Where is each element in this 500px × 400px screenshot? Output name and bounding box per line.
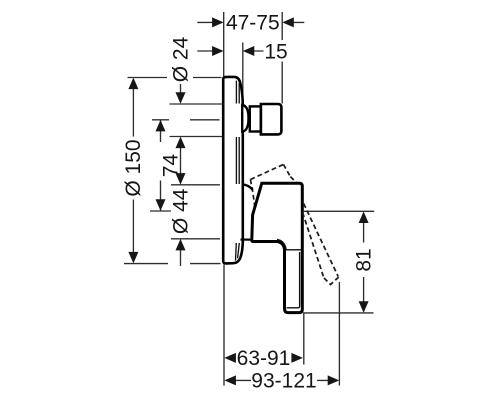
spout end cap xyxy=(261,104,282,134)
dim 47-75 tails xyxy=(197,21,304,23)
extension line dashed lever tip xyxy=(338,282,340,386)
arrow 63-91 right xyxy=(291,353,303,363)
sleeve top curve xyxy=(243,184,253,190)
spout rosette xyxy=(242,105,248,132)
arrow 15 left xyxy=(212,46,224,56)
ref lines O24 xyxy=(170,104,223,137)
svg-text:74: 74 xyxy=(159,154,182,178)
extension line wall plane bottom xyxy=(223,265,225,386)
lever inner edge lines xyxy=(287,252,300,308)
shaft O24-O44 column xyxy=(180,84,182,266)
arrow O150 down xyxy=(128,252,138,264)
svg-text:Ø 24: Ø 24 xyxy=(169,36,192,82)
lever parting line xyxy=(285,249,302,251)
fillet inner curve xyxy=(277,239,286,249)
dim O150 shaft xyxy=(132,88,134,253)
valve body and lever silhouette xyxy=(252,183,303,312)
dashed lever up position xyxy=(250,164,296,210)
svg-text:81: 81 xyxy=(352,248,375,271)
arrow 15 right xyxy=(243,46,255,56)
dim 74 shaft xyxy=(160,120,162,211)
dashed lever swung out xyxy=(303,204,339,285)
dim 81 shaft xyxy=(363,213,365,312)
extension line lever front xyxy=(303,314,305,365)
arrow O150 up xyxy=(128,78,138,90)
arrow O44 down xyxy=(176,173,186,185)
ref line lever bottom right xyxy=(303,312,374,314)
spout cylinder xyxy=(250,106,261,131)
spout centerline ticks xyxy=(152,119,220,121)
arrow 74 down xyxy=(156,199,166,211)
dim 15 tails xyxy=(197,50,263,52)
arrow O24 up xyxy=(176,137,186,149)
arrow 81 up xyxy=(359,212,369,224)
ref lines O44 xyxy=(171,185,220,239)
ref line plate top xyxy=(128,77,222,79)
arrow O24 down xyxy=(176,92,186,104)
ref line plate bottom xyxy=(124,263,221,265)
arrow 74 up xyxy=(156,120,166,131)
svg-text:63-91: 63-91 xyxy=(237,347,291,370)
plate inner line 1 xyxy=(235,81,238,261)
sleeve bottom edge xyxy=(241,239,252,241)
arrow 93-121 right xyxy=(328,375,340,385)
arrow O44 up xyxy=(176,239,186,251)
extension line spout tip xyxy=(281,12,283,104)
arrow 81 down xyxy=(359,301,369,313)
plate inner line 2 xyxy=(238,83,240,258)
svg-text:Ø 44: Ø 44 xyxy=(170,188,193,234)
arrow 47-75 left xyxy=(212,17,224,27)
pivot tick left xyxy=(150,210,171,212)
arrow 63-91 left xyxy=(224,353,236,363)
extension line plate front xyxy=(242,43,244,104)
escutcheon plate outline xyxy=(223,77,243,264)
arrow 47-75 right xyxy=(282,17,294,27)
arrow 93-121 left xyxy=(224,375,236,385)
svg-text:47-75: 47-75 xyxy=(226,12,280,35)
svg-text:Ø 150: Ø 150 xyxy=(122,139,145,196)
ref line pivot right xyxy=(304,210,374,212)
extension line wall plane top xyxy=(223,12,225,77)
dim 93-121 line segs xyxy=(235,379,329,381)
svg-text:93-121: 93-121 xyxy=(251,370,316,393)
svg-text:15: 15 xyxy=(264,40,287,63)
